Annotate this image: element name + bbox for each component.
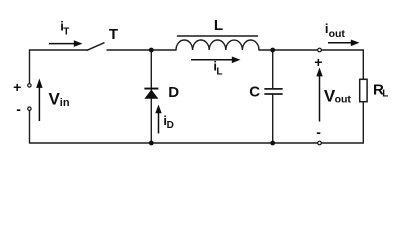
diode D — [144, 88, 158, 99]
voltage arrow Vin — [36, 79, 42, 122]
svg-text:D: D — [167, 120, 174, 131]
inductor L — [176, 40, 259, 50]
svg-text:L: L — [214, 17, 223, 34]
current arrow iT — [49, 40, 83, 47]
svg-text:out: out — [329, 28, 346, 40]
wire right side lower — [362, 102, 364, 143]
svg-text:L: L — [382, 89, 388, 100]
switch T — [87, 43, 104, 51]
terminal + output — [318, 48, 322, 52]
wire capacitor upper — [272, 50, 274, 88]
node junction bottom capacitor — [270, 141, 275, 146]
wire right side upper — [362, 50, 364, 79]
svg-text:C: C — [249, 83, 260, 100]
capacitor C plates — [265, 89, 282, 94]
svg-text:D: D — [168, 84, 179, 101]
node junction top diode — [149, 48, 154, 53]
svg-text:-: - — [316, 124, 321, 140]
inductor core bar — [178, 35, 258, 37]
wire top-left segment — [30, 50, 88, 83]
svg-text:V: V — [49, 90, 61, 109]
node junction bottom diode — [149, 141, 154, 146]
wire inductor to right corner — [259, 49, 363, 51]
current arrow iD — [155, 105, 161, 134]
terminal - output — [318, 141, 322, 145]
svg-text:+: + — [314, 54, 322, 70]
terminal + input — [28, 84, 31, 87]
wire diode branch — [150, 50, 152, 143]
svg-text:out: out — [335, 93, 352, 105]
wire left bottom vertical — [29, 111, 31, 143]
svg-text:+: + — [13, 79, 21, 95]
voltage arrow Vout — [316, 68, 322, 122]
resistor RL — [360, 79, 367, 101]
terminal - input — [28, 107, 31, 110]
svg-text:L: L — [216, 67, 222, 78]
svg-text:-: - — [16, 101, 21, 117]
current arrow iout — [328, 40, 360, 47]
wire switch to inductor — [107, 49, 176, 51]
svg-text:T: T — [63, 26, 69, 37]
node junction top capacitor — [270, 48, 275, 53]
current arrow iL — [191, 57, 241, 64]
wire bottom — [30, 142, 363, 144]
wire capacitor lower — [272, 95, 274, 143]
svg-text:T: T — [109, 26, 118, 43]
svg-text:in: in — [60, 97, 70, 109]
